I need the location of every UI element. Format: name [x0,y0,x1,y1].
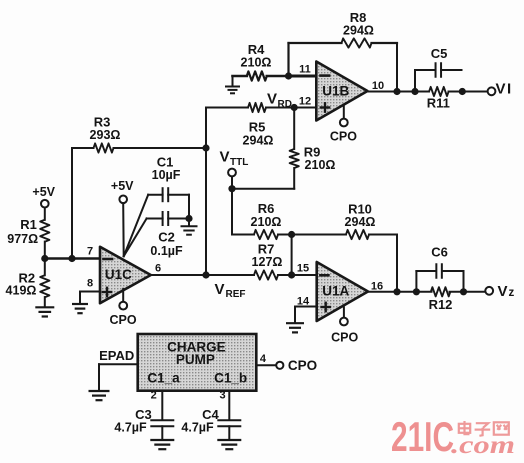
wire VTTL stub [231,177,233,189]
wire charge pump pin 2 to C3 [161,391,163,420]
wire R8 feedback top right [372,42,398,44]
wire U1C non-inverting input pin 8 [80,291,100,293]
terminal VTTL [228,169,236,177]
wire R3 left vertical [71,148,73,259]
resistor R1 [40,220,49,242]
junction pin 11 node [285,72,292,79]
wire U1C CPO stub [122,289,124,302]
svg-text:CPO: CPO [330,129,357,143]
svg-text:PUMP: PUMP [176,352,215,367]
ground below R2 [35,307,54,316]
junction C5 left node [411,88,418,95]
wire C1 slanted lead [124,195,149,257]
wire EPAD ground stub [98,364,100,390]
wire EPAD [99,363,138,365]
svg-text:R1: R1 [20,217,37,232]
wire R6-R7 vertical link [291,235,293,276]
svg-text:REF: REF [226,289,246,300]
svg-text:CPO: CPO [109,313,136,327]
svg-text:CPO: CPO [331,330,358,344]
wire R4 left lead [233,75,247,78]
svg-text:16: 16 [371,281,383,293]
wire R8 feedback right vertical [396,43,398,92]
capacitor C3 [150,420,174,426]
terminal CPO of charge pump [276,362,283,369]
svg-text:294Ω: 294Ω [243,134,274,148]
svg-text:10: 10 [372,80,384,92]
wire output to Vz terminal [450,291,486,293]
wire VRD net to U1B pin 12 [266,107,316,109]
svg-text:C1_b: C1_b [214,370,247,385]
svg-text:TTL: TTL [230,157,248,168]
terminal Vz [485,287,493,295]
svg-text:6: 6 [155,263,161,275]
resistor R4 [247,71,267,80]
svg-text:EPAD: EPAD [99,348,134,363]
wire U1A CPO stub [343,308,345,318]
svg-text:R11: R11 [427,96,450,111]
wire mid vertical bus [205,108,207,276]
resistor R6 [254,230,278,239]
junction C2 right node [185,215,192,222]
svg-text:+5V: +5V [32,185,55,199]
terminal CPO of U1B [340,119,348,127]
ground at U1C pin 8 [72,304,88,313]
svg-text:4.7µF: 4.7µF [181,421,214,435]
ground at EPAD [89,391,110,400]
svg-text:8: 8 [87,278,93,290]
capacitor C6 [415,271,417,292]
U1B inverting input symbol [321,74,330,77]
svg-text:V: V [267,91,277,108]
svg-text:294Ω: 294Ω [343,24,374,38]
svg-text:210Ω: 210Ω [251,215,282,229]
wire U1C output VREF [151,274,254,276]
wire charge pump pin 3 to C4 [228,391,230,420]
wire R9 bottom to VTTL node [232,188,294,190]
svg-text:12: 12 [299,96,311,108]
svg-text:C5: C5 [431,46,448,61]
junction VRD node [291,104,298,111]
wire R10 right lead [369,234,397,236]
wire C2 slanted lead [124,219,147,257]
watermark chinese characters [459,421,509,436]
wire charge pump pin 4 output [256,364,276,366]
wire R3 right lead [114,147,207,149]
resistor R3 [94,143,114,152]
capacitor C4 [217,420,241,426]
U1A inverting input symbol [320,274,328,277]
svg-text:7: 7 [87,245,93,257]
terminal CPO of U1C [119,302,127,310]
svg-text:C1_a: C1_a [147,370,180,385]
op-amp U1B [316,62,367,121]
svg-text:419Ω: 419Ω [6,284,37,298]
resistor R5 [248,103,266,112]
wire VRD net left segment [206,107,248,109]
svg-text:977Ω: 977Ω [7,232,38,246]
wire U1B inverting input pin 11 [289,75,317,78]
ground at R4 [225,87,240,94]
terminal +5V at U1C [119,196,127,204]
svg-text:U1C: U1C [105,267,132,282]
svg-text:11: 11 [299,64,311,76]
wire R8 feedback top left [289,42,342,44]
resistor R8 [342,38,372,47]
wire pin 14 ground stub [294,307,296,323]
junction VTTL node [228,185,235,192]
op-amp U1A [317,262,368,321]
wire R4 to pin 11 node [267,75,289,78]
wire R2 to ground [44,297,46,307]
wire U1A non-inverting input pin 14 [295,306,317,308]
svg-text:C2: C2 [158,230,175,245]
svg-text:210Ω: 210Ω [305,158,336,172]
ground at C1 C2 [181,226,198,234]
wire R8 feedback left vertical [287,43,289,76]
junction U1B output feedback node [393,88,400,95]
svg-text:V: V [220,149,230,166]
charge pump U2 block [138,334,257,391]
svg-text:z: z [509,287,515,299]
resistor R11 [429,87,449,96]
U1B non-inverting input symbol [321,106,329,108]
svg-text:+5V: +5V [111,179,134,193]
resistor R12 [431,287,451,296]
junction R3 bottom node [68,255,75,262]
svg-text:R12: R12 [429,297,453,312]
U1C non-inverting input symbol [103,291,111,293]
svg-text:0.1µF: 0.1µF [150,244,183,258]
ground below C3 [150,440,174,449]
junction R3 right node [202,144,209,151]
wire R6 left lead [232,234,254,236]
wire U1B output [368,91,430,93]
svg-text:4.7µF: 4.7µF [114,421,147,435]
svg-text:10µF: 10µF [152,168,181,182]
junction VREF node [202,271,209,278]
svg-text:C6: C6 [431,245,448,260]
resistor R2 [40,275,49,297]
wire R1 to R2 [44,242,46,276]
capacitor C2 [147,218,163,220]
wire R7 to U1A pin 15 [278,274,317,276]
resistor R7 [254,270,278,279]
svg-text:127Ω: 127Ω [252,255,283,269]
junction C6 right node [460,288,467,295]
wire C1-C2 right vertical [188,195,190,226]
wire U1C inverting input pin 7 [45,257,100,259]
wire VTTL node down to R6 [231,189,233,235]
capacitor C5 [414,70,416,92]
terminal +5V left [41,200,49,208]
terminal CPO of U1A [340,318,348,326]
svg-text:15: 15 [297,263,309,275]
U1A non-inverting input symbol [322,306,330,308]
svg-text:U1A: U1A [322,284,349,299]
svg-text:293Ω: 293Ω [90,128,121,142]
svg-text:294Ω: 294Ω [345,215,376,229]
junction R11 right node [459,88,466,95]
wire R3 left lead [72,147,94,149]
wire pin 8 ground stub [79,292,81,304]
svg-text:21IC: 21IC [391,413,454,460]
wire U1B CPO stub [343,106,345,119]
wire R10 down to U1A output [396,235,398,292]
wire R4 ground stub [232,76,234,86]
svg-text:R5: R5 [249,119,266,134]
svg-text:R6: R6 [258,201,275,216]
ground at U1A pin 14 [286,323,304,332]
wire +5V to R1 [44,208,46,220]
junction U1A output feedback node [393,288,400,295]
U1C inverting input symbol [104,258,113,261]
svg-text:3: 3 [219,390,225,402]
wire U1A output [368,291,432,293]
junction R1-R2 node [41,255,48,262]
junction R6-R7 node [288,231,295,238]
resistor R9 [293,108,295,150]
svg-text:V: V [498,283,508,300]
wire +5V supply to U1C [122,203,125,256]
junction C6 left node [413,288,420,295]
terminal VI [488,87,496,95]
svg-text:2: 2 [151,390,157,402]
capacitor C1 [148,194,162,196]
svg-text:4: 4 [260,353,267,365]
wire R6 to R10 [278,234,346,236]
ground below C4 [217,440,241,449]
svg-text:VI: VI [496,81,513,98]
svg-text:CPO: CPO [288,358,317,373]
op-amp U1C [100,247,151,303]
junction R7 right node [288,271,295,278]
svg-text:.com: .com [451,432,515,459]
wire output to VI terminal [449,91,488,93]
svg-text:U1B: U1B [322,83,349,98]
resistor R10 [346,230,369,239]
svg-text:210Ω: 210Ω [241,56,272,70]
svg-text:V: V [215,281,225,298]
